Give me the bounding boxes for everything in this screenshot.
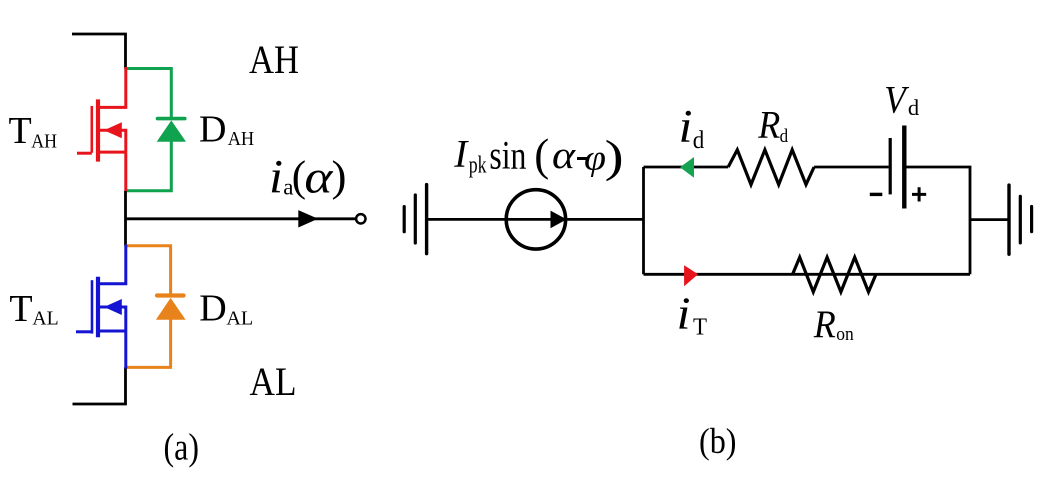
svg-text:V: V: [884, 79, 909, 122]
svg-text:D: D: [199, 287, 226, 329]
svg-text:R: R: [757, 103, 780, 146]
svg-text:α: α: [552, 134, 577, 177]
svg-text:T: T: [9, 110, 32, 152]
svg-text:D: D: [199, 109, 226, 151]
svg-text:d: d: [780, 126, 789, 147]
svg-text:φ: φ: [584, 137, 606, 177]
svg-text:R: R: [813, 303, 836, 346]
svg-text:sin: sin: [489, 132, 526, 177]
svg-text:AH: AH: [228, 128, 255, 150]
svg-text:AL: AL: [226, 308, 253, 330]
svg-text:on: on: [836, 324, 854, 345]
svg-text:T: T: [9, 288, 32, 330]
svg-text:i: i: [679, 101, 693, 153]
svg-text:AL: AL: [250, 359, 297, 404]
svg-text:T: T: [693, 313, 707, 340]
svg-text:d: d: [908, 95, 919, 120]
svg-text:d: d: [693, 125, 705, 154]
svg-text:pk: pk: [469, 153, 487, 179]
svg-text:AH: AH: [31, 131, 57, 153]
svg-text:): ): [332, 153, 347, 200]
svg-text:AL: AL: [32, 308, 58, 330]
svg-text:i: i: [269, 151, 283, 204]
svg-text:i: i: [677, 287, 691, 338]
svg-text:(a): (a): [164, 427, 200, 469]
svg-text:AH: AH: [249, 37, 299, 82]
svg-text:(b): (b): [699, 421, 737, 461]
svg-text:): ): [605, 131, 624, 181]
svg-text:I: I: [453, 133, 469, 176]
svg-text:α: α: [304, 152, 334, 204]
svg-text:(: (: [534, 130, 549, 180]
